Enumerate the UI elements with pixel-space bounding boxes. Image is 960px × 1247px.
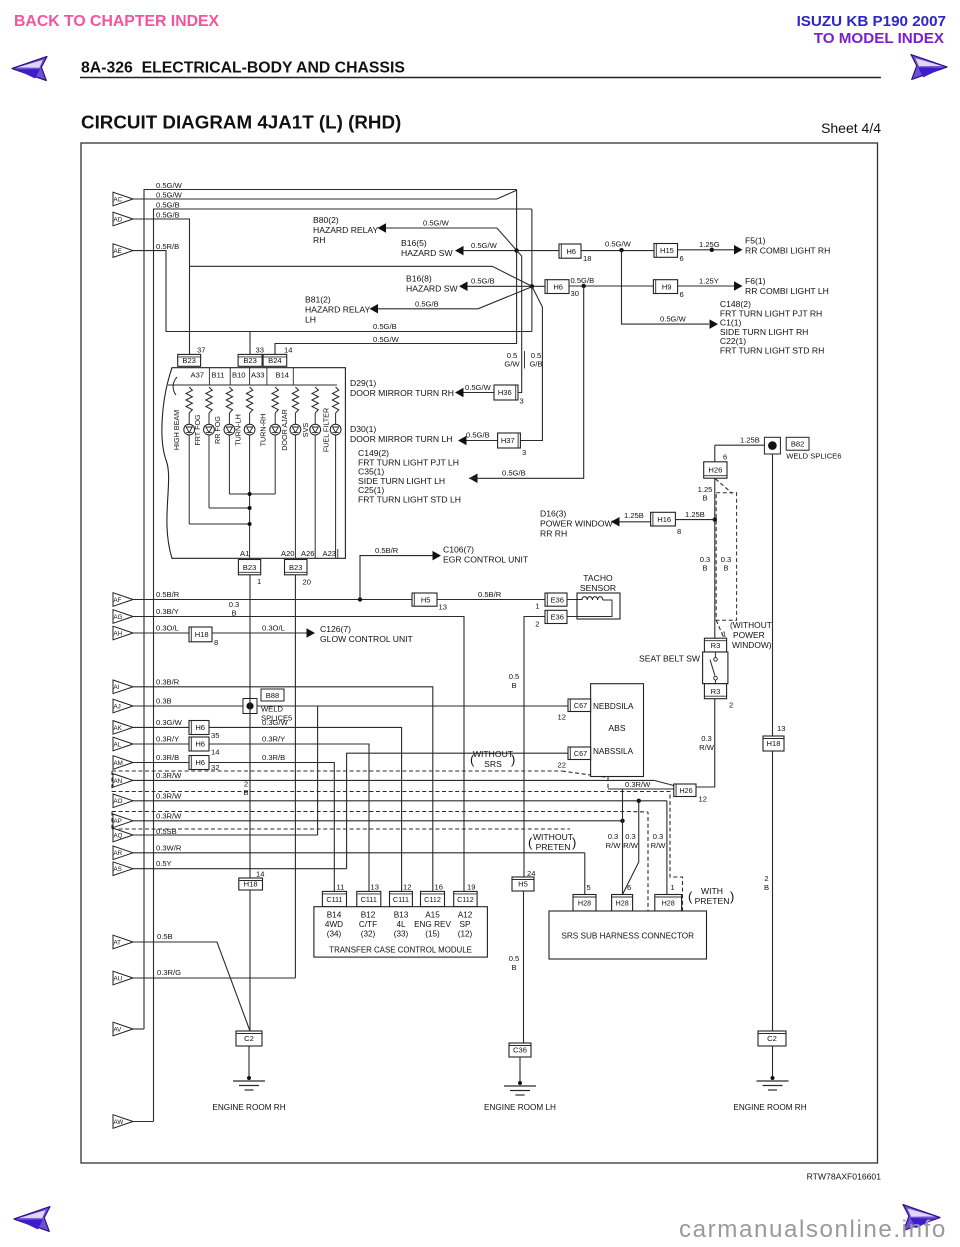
svg-text:2: 2 <box>729 701 733 710</box>
svg-text:A12: A12 <box>458 911 473 920</box>
svg-text:AG: AG <box>114 614 123 621</box>
svg-text:B88: B88 <box>266 691 280 700</box>
svg-text:R/W: R/W <box>699 743 715 752</box>
wire 0.5G/B drop to H37 <box>520 286 542 440</box>
svg-text:0.5G/B: 0.5G/B <box>466 431 490 440</box>
svg-text:SENSOR: SENSOR <box>580 583 616 593</box>
svg-text:A26: A26 <box>301 549 315 558</box>
wire from B23 pin20 down to AU line <box>294 575 296 978</box>
connector B23 pin 37 <box>178 354 201 366</box>
connector H18 pin 8 <box>189 627 212 642</box>
svg-text:0.5Y: 0.5Y <box>156 859 172 868</box>
connector arrow AD <box>113 212 133 226</box>
svg-text:C112: C112 <box>457 895 474 904</box>
svg-text:PRETEN: PRETEN <box>695 896 730 906</box>
svg-text:POWER WINDOW: POWER WINDOW <box>540 519 613 529</box>
connector H6 pin 18 <box>559 244 581 258</box>
svg-text:C67: C67 <box>574 701 587 710</box>
svg-text:WELD: WELD <box>261 705 283 714</box>
svg-text:AP: AP <box>114 818 122 825</box>
nav arrow top-right <box>911 55 947 80</box>
svg-text:RR COMBI LIGHT LH: RR COMBI LIGHT LH <box>745 286 829 296</box>
connector B23 pin 33 <box>238 354 262 366</box>
svg-text:H5: H5 <box>421 595 431 604</box>
svg-text:1: 1 <box>722 630 726 639</box>
wire 0.5B from E36-2 down to H5-24 <box>524 617 545 878</box>
svg-text:AS: AS <box>114 866 122 873</box>
svg-text:0.3B/R: 0.3B/R <box>156 677 180 686</box>
svg-text:C2: C2 <box>244 1034 254 1043</box>
svg-text:6: 6 <box>680 290 684 299</box>
svg-text:B: B <box>702 494 707 503</box>
svg-text:8A-326 ELECTRICAL-BODY AND CH: 8A-326 ELECTRICAL-BODY AND CHASSIS <box>81 60 405 77</box>
connector arrow AG <box>113 610 133 624</box>
svg-text:1: 1 <box>671 883 675 892</box>
svg-text:12: 12 <box>403 883 411 892</box>
svg-text:B: B <box>702 564 707 573</box>
svg-text:B: B <box>231 609 236 618</box>
svg-text:0.3B/Y: 0.3B/Y <box>156 607 179 616</box>
svg-text:18: 18 <box>583 254 591 263</box>
svg-text:13: 13 <box>371 883 379 892</box>
svg-text:RTW78AXF016601: RTW78AXF016601 <box>807 1172 882 1182</box>
svg-text:0.3: 0.3 <box>625 832 636 841</box>
svg-text:0.3R/G: 0.3R/G <box>157 968 181 977</box>
svg-text:A20: A20 <box>281 549 295 558</box>
cluster wires A20 A26 A23 <box>294 435 296 558</box>
connector arrow AJ <box>113 699 133 713</box>
connector arrow AR <box>113 846 133 860</box>
svg-text:0.5G/W: 0.5G/W <box>660 315 687 324</box>
svg-text:0.3R/W: 0.3R/W <box>156 811 182 820</box>
wire 0.5G/W to B24 pin14 <box>275 251 517 355</box>
svg-text:A23: A23 <box>323 549 337 558</box>
svg-text:ENGINE ROOM RH: ENGINE ROOM RH <box>212 1103 285 1112</box>
svg-text:B: B <box>243 788 248 797</box>
wire 0.5B/R branch to EGR control unit <box>360 556 433 600</box>
cluster lamp wires to common node <box>188 435 190 524</box>
ground engine room LH <box>519 1057 521 1083</box>
svg-text:ENG REV: ENG REV <box>414 920 451 929</box>
svg-text:0.5G/W: 0.5G/W <box>156 181 183 190</box>
connector H36 pin 3 <box>494 385 518 400</box>
svg-text:1.25B: 1.25B <box>624 511 644 520</box>
svg-text:): ) <box>572 835 576 850</box>
svg-text:B10: B10 <box>232 371 246 380</box>
connector arrow AC <box>113 192 133 206</box>
svg-text:E36: E36 <box>550 613 564 622</box>
wire 0.5G/W from AC <box>133 190 517 199</box>
svg-text:0.3R/Y: 0.3R/Y <box>262 735 285 744</box>
connector arrow AO <box>113 794 133 808</box>
svg-text:H28: H28 <box>662 898 675 907</box>
svg-text:AN: AN <box>114 778 123 785</box>
dashed SRS wire 1 <box>112 770 562 772</box>
svg-text:WITHOUT: WITHOUT <box>533 832 574 842</box>
connector arrow AK <box>113 721 133 735</box>
svg-text:0.3B: 0.3B <box>156 697 172 706</box>
connector arrow AS <box>113 862 133 876</box>
svg-text:30: 30 <box>571 289 579 298</box>
svg-text:C67: C67 <box>574 749 587 758</box>
wire vertical line3 drop to junction <box>531 209 533 332</box>
svg-text:DOOR AJAR: DOOR AJAR <box>280 409 289 451</box>
svg-text:33: 33 <box>256 346 264 355</box>
svg-text:1.25B: 1.25B <box>685 510 705 519</box>
component TRANSFER CASE CONTROL MODULE <box>314 907 488 957</box>
svg-text:SEAT BELT SW: SEAT BELT SW <box>639 654 701 664</box>
connector H9 pin 6 <box>653 280 677 294</box>
component ABS control unit <box>591 684 644 777</box>
connector C2 LH <box>236 1031 262 1046</box>
svg-text:AJ: AJ <box>114 703 121 710</box>
svg-text:1.25B: 1.25B <box>740 436 760 445</box>
svg-text:H18: H18 <box>244 880 258 889</box>
wire 0.5B from H5-24 to C36 <box>523 891 525 1043</box>
svg-text:2: 2 <box>535 620 539 629</box>
wire 1.25B from H26 pin6 to weld splice B82 <box>715 444 765 446</box>
svg-text:AL: AL <box>114 741 122 748</box>
wire 0.5G/B to front turn lights LH <box>469 474 478 484</box>
svg-text:B: B <box>723 564 728 573</box>
svg-text:0.5G/B: 0.5G/B <box>415 300 439 309</box>
svg-text:H18: H18 <box>767 739 781 748</box>
wire 0.5G/W H6 to H15 <box>581 250 654 252</box>
svg-text:BACK TO CHAPTER INDEX: BACK TO CHAPTER INDEX <box>14 13 220 30</box>
svg-text:0.5G/W: 0.5G/W <box>156 191 183 200</box>
connector arrow AH <box>113 626 133 640</box>
connector arrow AT <box>113 935 133 949</box>
svg-text:0.5B: 0.5B <box>157 932 173 941</box>
svg-text:LH: LH <box>305 315 316 325</box>
connector arrow AL <box>113 737 133 751</box>
svg-text:Sheet 4/4: Sheet 4/4 <box>821 120 881 136</box>
svg-text:C2: C2 <box>767 1034 777 1043</box>
svg-text:HAZARD SW: HAZARD SW <box>406 284 458 294</box>
svg-text:AK: AK <box>114 725 123 732</box>
svg-text:0.3R/B: 0.3R/B <box>262 753 285 762</box>
svg-text:E36: E36 <box>550 595 564 604</box>
svg-text:0.5: 0.5 <box>509 672 520 681</box>
svg-text:AV: AV <box>114 1026 123 1033</box>
svg-text:R3: R3 <box>711 687 721 696</box>
connector H18 pin 13 <box>763 736 784 751</box>
svg-text:D16(3): D16(3) <box>540 509 566 519</box>
svg-text:6: 6 <box>627 883 631 892</box>
svg-text:B81(2): B81(2) <box>305 295 331 305</box>
svg-text:H36: H36 <box>498 388 512 397</box>
svg-text:SRS SUB HARNESS CONNECTOR: SRS SUB HARNESS CONNECTOR <box>561 932 694 941</box>
svg-text:13: 13 <box>439 603 447 612</box>
svg-text:ENGINE ROOM LH: ENGINE ROOM LH <box>484 1103 556 1112</box>
svg-text:B24: B24 <box>268 356 282 365</box>
svg-text:0.5G/W: 0.5G/W <box>465 383 492 392</box>
svg-text:0.3G/W: 0.3G/W <box>156 718 183 727</box>
svg-text:WINDOW): WINDOW) <box>732 640 772 650</box>
svg-text:WELD SPLICE6: WELD SPLICE6 <box>786 452 841 461</box>
svg-text:TACHO: TACHO <box>583 573 613 583</box>
wire 1.25B from H26 to H16 junction <box>714 478 716 638</box>
svg-text:H18: H18 <box>195 630 209 639</box>
svg-text:HAZARD RELAY: HAZARD RELAY <box>313 225 379 235</box>
svg-text:H5: H5 <box>518 880 528 889</box>
weld splice B82 <box>764 437 780 454</box>
svg-text:(15): (15) <box>425 930 440 939</box>
svg-text:0.3G/W: 0.3G/W <box>262 718 289 727</box>
diagram border frame <box>81 143 878 1163</box>
svg-text:D29(1): D29(1) <box>350 378 376 388</box>
dashed SRS wire 2 to H26/H28 <box>112 792 683 914</box>
svg-text:A15: A15 <box>425 911 440 920</box>
svg-text:0.5G/B: 0.5G/B <box>502 469 526 478</box>
svg-text:0.3R/W: 0.3R/W <box>156 791 182 800</box>
svg-text:AC: AC <box>114 196 123 203</box>
svg-text:0.3R/B: 0.3R/B <box>156 753 179 762</box>
svg-text:19: 19 <box>467 883 475 892</box>
svg-text:AM: AM <box>114 760 123 767</box>
svg-text:B16(5): B16(5) <box>401 238 427 248</box>
svg-text:RR RH: RR RH <box>540 529 567 539</box>
svg-text:0.5G/W: 0.5G/W <box>423 219 450 228</box>
wire 0.3R/W seat belt to H26 pin12 <box>696 699 715 787</box>
svg-text:A1: A1 <box>240 549 249 558</box>
connector C2 RH <box>758 1031 786 1046</box>
svg-text:AI: AI <box>114 684 120 691</box>
svg-text:H37: H37 <box>501 436 515 445</box>
svg-text:AO: AO <box>114 798 123 805</box>
wire 0.5G/W drop to H36 <box>517 251 522 393</box>
svg-text:0.5G/B: 0.5G/B <box>156 211 180 220</box>
svg-text:B11: B11 <box>212 371 225 380</box>
svg-text:B16(8): B16(8) <box>406 274 432 284</box>
svg-text:0.5B/R: 0.5B/R <box>375 546 399 555</box>
svg-text:C111: C111 <box>393 895 409 904</box>
svg-text:FRT FOG: FRT FOG <box>193 414 202 446</box>
svg-text:0.3: 0.3 <box>653 832 664 841</box>
svg-text:1.25G: 1.25G <box>699 240 720 249</box>
connector H6 pin 32 <box>189 756 209 770</box>
connector C67 pin 22 <box>568 747 591 760</box>
connector H16 pin 8 <box>651 512 676 526</box>
svg-text:HIGH BEAM: HIGH BEAM <box>172 410 181 450</box>
svg-text:H9: H9 <box>662 282 672 291</box>
connector C67 pin 12 <box>568 699 591 712</box>
wire 0.5G/W branch to front turn lights RH <box>622 250 710 324</box>
svg-text:TURN-RH: TURN-RH <box>259 414 268 447</box>
cluster pin cells A37 B11 B10 A33 B14 <box>208 368 210 385</box>
svg-text:8: 8 <box>677 527 681 536</box>
connector H6 pin 14 <box>189 737 209 751</box>
svg-text:FUEL FILTER: FUEL FILTER <box>322 408 331 452</box>
svg-text:HAZARD SW: HAZARD SW <box>401 248 453 258</box>
svg-text:TO MODEL INDEX: TO MODEL INDEX <box>814 30 944 47</box>
svg-text:14: 14 <box>211 748 219 757</box>
wire vertical line1 drop to junction <box>516 190 518 251</box>
connector arrow AN <box>113 774 133 788</box>
meter cluster box <box>162 368 345 559</box>
svg-text:C106(7): C106(7) <box>443 545 474 555</box>
svg-text:AR: AR <box>114 850 123 857</box>
svg-text:A37: A37 <box>191 371 205 380</box>
svg-text:37: 37 <box>197 346 205 355</box>
connector H26 pin 12 <box>674 784 696 797</box>
svg-text:H6: H6 <box>195 740 205 749</box>
svg-text:H6: H6 <box>553 282 563 291</box>
svg-text:C112: C112 <box>424 895 441 904</box>
svg-text:H16: H16 <box>657 515 671 524</box>
connector E36 pin 2 <box>545 610 567 623</box>
svg-text:(33): (33) <box>394 930 409 939</box>
svg-text:0.3R/W: 0.3R/W <box>625 780 651 789</box>
svg-text:(WITHOUT: (WITHOUT <box>730 620 772 630</box>
svg-text:0.3W/R: 0.3W/R <box>156 843 182 852</box>
svg-text:R/W: R/W <box>651 841 667 850</box>
svg-text:0.5G/B: 0.5G/B <box>373 322 397 331</box>
connector arrow AM <box>113 756 133 770</box>
svg-text:AH: AH <box>114 630 123 637</box>
dashed SRS wire 4 <box>112 828 570 830</box>
svg-text:12: 12 <box>558 713 566 722</box>
svg-text:C36: C36 <box>513 1046 527 1055</box>
ground engine room RH right <box>772 1046 774 1078</box>
svg-text:(32): (32) <box>361 930 376 939</box>
svg-text:C111: C111 <box>361 895 377 904</box>
svg-text:carmanualsonline.info: carmanualsonline.info <box>679 1216 947 1242</box>
svg-text:): ) <box>730 889 734 904</box>
connector B24 pin 14 <box>263 354 287 366</box>
svg-text:B13: B13 <box>394 911 409 920</box>
svg-text:0.5G/B: 0.5G/B <box>471 277 495 286</box>
dashed SRS wire 3 <box>112 811 648 814</box>
svg-text:GLOW CONTROL UNIT: GLOW CONTROL UNIT <box>320 634 414 644</box>
connector H37 pin 3 <box>498 433 521 448</box>
svg-text:AF: AF <box>114 597 122 604</box>
svg-text:ABS: ABS <box>608 723 625 733</box>
svg-text:0.3: 0.3 <box>608 832 619 841</box>
svg-text:12: 12 <box>699 795 707 804</box>
svg-text:5: 5 <box>587 883 591 892</box>
svg-text:RH: RH <box>313 235 325 245</box>
cluster indicator lamps <box>188 413 190 424</box>
connector H6 pin 35 <box>189 721 209 735</box>
svg-text:H26: H26 <box>679 786 692 795</box>
svg-text:H15: H15 <box>660 246 674 255</box>
connector H26 pin 6 <box>704 462 727 478</box>
svg-text:B23: B23 <box>289 563 303 572</box>
cluster lamp resistors <box>186 387 192 413</box>
svg-text:R3: R3 <box>711 641 721 650</box>
svg-text:B12: B12 <box>361 911 376 920</box>
svg-text:A33: A33 <box>251 371 265 380</box>
svg-text:ENGINE ROOM RH: ENGINE ROOM RH <box>733 1103 806 1112</box>
svg-text:F6(1): F6(1) <box>745 276 766 286</box>
svg-text:EGR CONTROL UNIT: EGR CONTROL UNIT <box>443 555 529 565</box>
svg-text:H6: H6 <box>566 247 576 256</box>
svg-text:1.25Y: 1.25Y <box>699 276 719 285</box>
svg-text:B80(2): B80(2) <box>313 215 339 225</box>
connector B23 pin 20 <box>285 560 308 575</box>
svg-text:B14: B14 <box>276 371 290 380</box>
svg-text:H6: H6 <box>195 723 205 732</box>
svg-text:0.5: 0.5 <box>509 954 520 963</box>
svg-text:B: B <box>511 681 516 690</box>
svg-text:0.3: 0.3 <box>701 734 712 743</box>
svg-text:FRT TURN LIGHT STD RH: FRT TURN LIGHT STD RH <box>720 346 824 356</box>
svg-text:AQ: AQ <box>114 832 123 839</box>
svg-text:1: 1 <box>257 577 261 586</box>
connector arrow AW <box>113 1115 133 1129</box>
svg-text:PRETEN: PRETEN <box>536 842 571 852</box>
svg-text:H6: H6 <box>195 758 205 767</box>
svg-text:(: ( <box>528 835 533 850</box>
svg-text:POWER: POWER <box>733 630 765 640</box>
wire 0.5G/B H6-30 to H9 <box>569 285 653 287</box>
connector H6 pin 30 <box>545 280 569 294</box>
svg-text:4WD: 4WD <box>325 920 343 929</box>
svg-text:3: 3 <box>522 448 526 457</box>
svg-text:C126(7): C126(7) <box>320 624 351 634</box>
connector B23 pin 1 <box>238 560 260 575</box>
svg-text:R/W: R/W <box>623 841 639 850</box>
wire 0.3B/2B from B23 pin1 down to C2 LH <box>249 575 251 1031</box>
svg-text:0.5G/W: 0.5G/W <box>605 240 632 249</box>
connector arrow AV <box>113 1022 133 1036</box>
connector arrow AI <box>113 680 133 694</box>
svg-text:NABSSILA: NABSSILA <box>593 747 634 756</box>
wire 0.5B/R H5 to E36 <box>437 599 545 601</box>
svg-text:0.3O/L: 0.3O/L <box>156 624 179 633</box>
connector arrow AP <box>113 814 133 828</box>
wire 2B from weld splice B82 down to C2 RH <box>772 454 774 736</box>
svg-text:(: ( <box>470 752 475 767</box>
svg-text:14: 14 <box>284 346 292 355</box>
svg-text:0.3R/W: 0.3R/W <box>156 771 182 780</box>
ground engine room RH left <box>248 1046 250 1078</box>
svg-text:0.5B/R: 0.5B/R <box>156 590 180 599</box>
nav arrow bottom-right <box>903 1205 940 1231</box>
svg-text:35: 35 <box>211 731 219 740</box>
svg-text:20: 20 <box>303 578 311 587</box>
svg-text:B23: B23 <box>182 356 196 365</box>
svg-text:AD: AD <box>114 216 123 223</box>
svg-text:NEBDSILA: NEBDSILA <box>593 702 634 711</box>
svg-text:): ) <box>511 752 515 767</box>
weld splice B88 <box>243 699 257 714</box>
svg-text:6: 6 <box>723 453 727 462</box>
nav arrow bottom-left <box>14 1207 50 1232</box>
svg-text:C111: C111 <box>326 895 342 904</box>
svg-text:C/TF: C/TF <box>359 920 377 929</box>
svg-text:0.5B/R: 0.5B/R <box>478 590 502 599</box>
svg-text:0.5G/W: 0.5G/W <box>373 335 400 344</box>
svg-text:CIRCUIT DIAGRAM 4JA1T (L) (RHD: CIRCUIT DIAGRAM 4JA1T (L) (RHD) <box>81 112 401 133</box>
svg-text:2: 2 <box>764 874 768 883</box>
svg-text:0.5G/B: 0.5G/B <box>571 276 595 285</box>
nav arrow top-left <box>12 57 47 81</box>
wire 0.5G/B rail (line3) <box>154 209 532 1122</box>
connector arrow AE <box>113 244 133 258</box>
svg-text:F5(1): F5(1) <box>745 235 766 245</box>
cluster pin row line <box>168 384 337 386</box>
svg-text:0.5G/B: 0.5G/B <box>156 201 180 210</box>
svg-text:G/W: G/W <box>504 360 520 369</box>
svg-text:TURN-LH: TURN-LH <box>234 414 243 446</box>
svg-text:AT: AT <box>114 939 122 946</box>
svg-text:FRT TURN LIGHT STD LH: FRT TURN LIGHT STD LH <box>358 495 461 505</box>
svg-text:14: 14 <box>256 870 264 879</box>
connector arrow AF <box>113 593 133 607</box>
wire 0.3O/L to glow arrow <box>212 632 307 634</box>
